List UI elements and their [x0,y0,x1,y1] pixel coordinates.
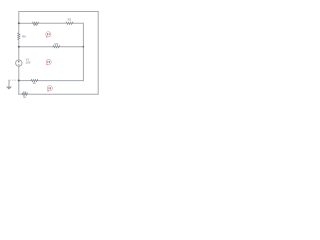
wire: node B row right + inner right vertical [73,23,83,80]
wire: left vertical middle [18,40,20,60]
wire: middle row (y=46.7) left [19,46,53,48]
junction node at B row [18,22,20,24]
svg-text:R5: R5 [23,90,27,94]
ground arrow stem [8,80,10,87]
wire: left vertical upper [18,12,20,34]
wire: node B row (y=23.3) left [19,22,33,24]
wire: bottom-left segment [19,93,22,95]
junction node at inner right / middle row [83,46,85,48]
resistor R4 (lower row) [31,80,38,82]
voltage source V1 [16,60,22,66]
wire: lower row right [38,80,84,82]
mesh current loop I2 [46,59,51,65]
resistor R2 (top row right) [66,22,73,24]
wire: lower row (y=80.6) left [19,80,31,82]
mesh current loop I3 [47,86,52,92]
wire: left vertical lower [18,66,20,94]
wire: node B row mid [39,22,66,24]
resistor R6 (left vertical) [18,33,20,40]
resistor R5 (bottom row) [22,93,27,95]
resistor R3 (middle row) [53,46,60,48]
wire: outer loop top/right/bottom [19,12,98,95]
junction node at lower row [18,80,20,82]
ground (arrow style) dashed link [9,79,18,81]
V1 plus sign [18,61,20,63]
svg-text:R6: R6 [22,35,26,39]
svg-text:R1: R1 [34,23,38,27]
svg-text:R3: R3 [55,42,59,46]
ground arrowhead [6,87,12,90]
V1 minus sign [18,64,20,66]
svg-text:R2: R2 [68,18,72,22]
junction node at middle row [18,46,20,48]
resistor R1 (top row left) [32,22,38,24]
mesh current loop I1 [46,32,51,38]
svg-text:10V: 10V [26,61,31,65]
wire: middle row right [60,46,84,48]
